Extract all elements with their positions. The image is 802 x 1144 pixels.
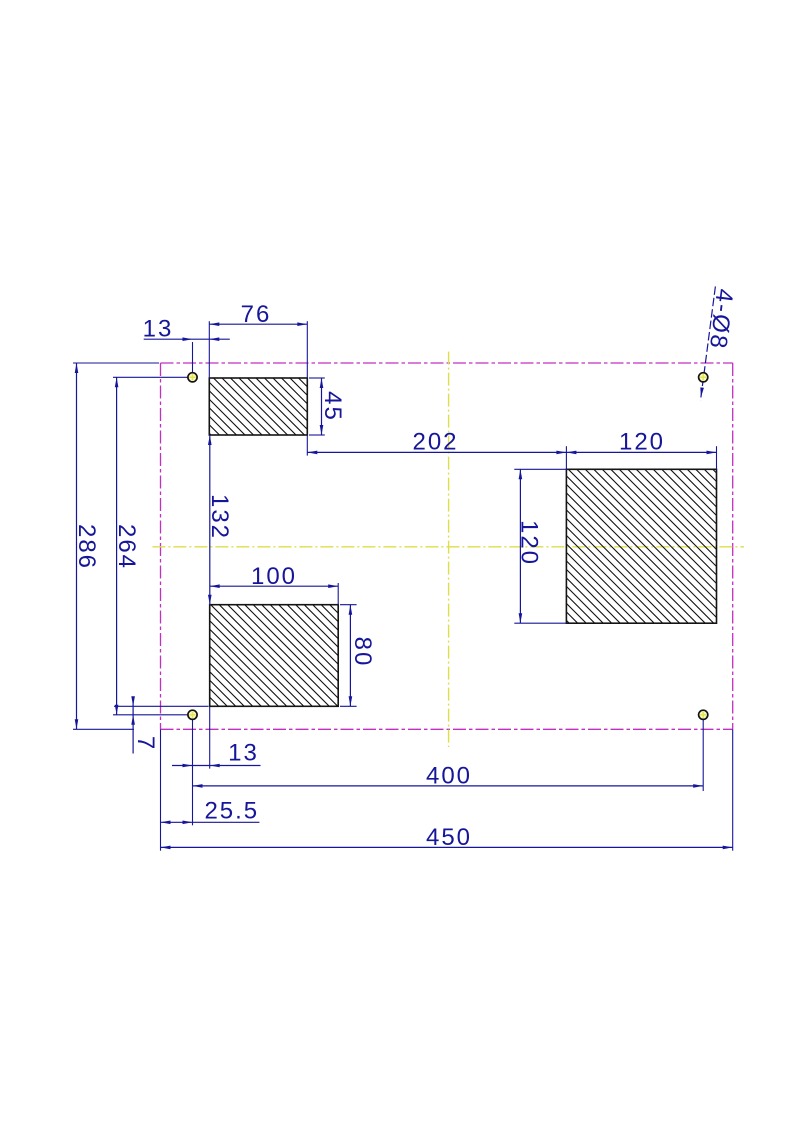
svg-text:100: 100 (251, 563, 297, 590)
svg-text:45: 45 (319, 391, 346, 422)
svg-text:264: 264 (113, 524, 140, 570)
svg-text:450: 450 (426, 824, 472, 851)
svg-text:13: 13 (228, 740, 259, 767)
svg-text:25.5: 25.5 (204, 798, 259, 825)
svg-text:13: 13 (143, 316, 174, 343)
svg-text:76: 76 (241, 301, 272, 328)
svg-text:132: 132 (206, 494, 233, 540)
svg-text:400: 400 (426, 763, 472, 790)
svg-text:4-Ø8: 4-Ø8 (704, 287, 738, 351)
svg-text:7: 7 (132, 736, 159, 751)
svg-text:202: 202 (412, 428, 458, 455)
svg-text:80: 80 (349, 637, 376, 668)
svg-text:120: 120 (516, 520, 543, 566)
svg-text:286: 286 (73, 524, 100, 570)
svg-text:120: 120 (619, 428, 665, 455)
